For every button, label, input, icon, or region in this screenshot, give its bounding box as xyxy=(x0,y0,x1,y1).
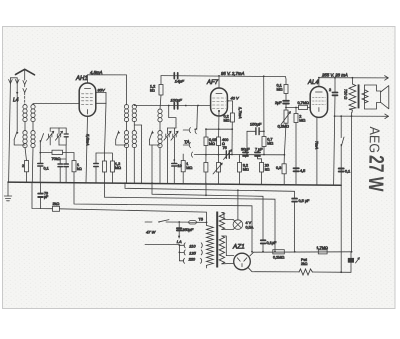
svg-text:75: 75 xyxy=(223,146,227,150)
svg-text:4 V: 4 V xyxy=(246,221,252,225)
line LB xyxy=(74,183,252,252)
svg-text:TA: TA xyxy=(184,140,190,145)
svg-text:MΩ: MΩ xyxy=(115,166,121,170)
capacitor C16 xyxy=(94,164,98,167)
band switch S2 xyxy=(116,131,119,140)
AH1 screen tap 85V xyxy=(96,92,106,103)
dial lamp xyxy=(233,220,243,230)
svg-text:AF7: AF7 xyxy=(206,80,219,86)
resistor 1,2k xyxy=(159,85,163,96)
svg-text:95 V. 2,7mA: 95 V. 2,7mA xyxy=(221,71,244,76)
capacitor C12 xyxy=(38,194,43,197)
trimmer capacitor C2 xyxy=(57,134,60,137)
svg-text:T5: T5 xyxy=(199,218,203,222)
grid resistor 0,7M horizontal xyxy=(299,105,308,109)
svg-text:LA: LA xyxy=(177,239,182,244)
resistor 0,7M xyxy=(262,137,266,147)
svg-text:14μF: 14μF xyxy=(175,78,185,83)
capacitor C3 xyxy=(64,134,68,137)
resistor R2 xyxy=(72,161,76,172)
svg-text:125: 125 xyxy=(189,250,196,255)
switch on speaker line xyxy=(340,116,342,272)
svg-text:250μF: 250μF xyxy=(181,227,194,232)
coil L1a xyxy=(23,105,27,109)
svg-text:MΩ: MΩ xyxy=(209,142,215,146)
resistor 0,3M on pot lead xyxy=(282,164,286,174)
svg-text:7mA: 7mA xyxy=(315,141,320,150)
field coil 2k xyxy=(299,269,312,275)
tone capacitor 2uF on plate xyxy=(334,78,336,93)
svg-text:100μF: 100μF xyxy=(171,98,183,103)
svg-text:710 Ω: 710 Ω xyxy=(344,89,348,99)
svg-text:2kΩ: 2kΩ xyxy=(53,202,60,206)
screen dropper network xyxy=(96,103,112,153)
band switch S3 xyxy=(150,131,153,140)
svg-text:0,5 μF: 0,5 μF xyxy=(299,199,311,203)
svg-text:0,5A: 0,5A xyxy=(246,226,254,230)
speaker return wire xyxy=(335,115,389,117)
trimmer capacitor C8 xyxy=(173,134,176,137)
capacitor 7uF xyxy=(255,152,260,156)
svg-text:0,7MΩ: 0,7MΩ xyxy=(298,101,309,105)
trimmer capacitor C7 xyxy=(166,134,169,137)
trimmer capacitor 75pF xyxy=(226,151,229,159)
antenna plug left xyxy=(9,80,13,84)
brand text AEG 27 W xyxy=(364,126,389,192)
svg-text:4,5mA: 4,5mA xyxy=(90,70,103,75)
coil L6 xyxy=(158,131,162,135)
resistor R5 xyxy=(181,161,185,172)
svg-text:150μF: 150μF xyxy=(250,122,262,127)
power transformer primary xyxy=(207,225,214,265)
band switch S1b xyxy=(40,134,43,143)
svg-text:MΩ: MΩ xyxy=(243,168,249,172)
wire y154 xyxy=(194,154,284,156)
capacitor C11 xyxy=(339,169,344,172)
capacitor 0,5uF xyxy=(292,199,297,202)
coupling capacitor 100uF on IF line xyxy=(174,103,177,109)
resistor 70k horizontal xyxy=(52,150,63,154)
coil L2a xyxy=(23,131,27,135)
resistor R4 xyxy=(111,161,115,172)
speaker xyxy=(364,85,380,109)
svg-text:0,1μF: 0,1μF xyxy=(267,241,277,245)
svg-text:MΩ: MΩ xyxy=(277,88,283,92)
wire coil bottoms xyxy=(25,147,33,182)
svg-text:1,7MΩ: 1,7MΩ xyxy=(317,246,328,250)
wire top tie xyxy=(50,127,66,129)
svg-text:85V: 85V xyxy=(98,87,105,92)
antenna lead center xyxy=(24,69,26,80)
svg-text:27 W: 27 W xyxy=(364,155,389,192)
svg-text:kΩ: kΩ xyxy=(150,89,155,93)
resistor 400 ohm xyxy=(217,137,221,146)
resistor 20k xyxy=(260,163,264,173)
svg-text:0,2MΩ: 0,2MΩ xyxy=(278,125,289,129)
output transformer primary 710ohm xyxy=(351,78,353,113)
resistor 2M xyxy=(294,114,298,123)
capacitor 2uF xyxy=(283,101,289,104)
svg-text:0,1: 0,1 xyxy=(44,167,49,171)
resistor R6 xyxy=(230,113,234,122)
AZ1 bottom xyxy=(248,268,299,272)
tube AF7 xyxy=(211,88,228,116)
rectifier tube AZ1 xyxy=(234,253,251,270)
lamp to rail3 xyxy=(237,190,239,220)
heater winding xyxy=(219,213,224,230)
wire coil bottoms to bus xyxy=(127,125,142,183)
grid cap wire xyxy=(169,106,176,129)
svg-text:47 W: 47 W xyxy=(146,230,157,235)
mains input wires xyxy=(145,221,152,223)
grid arrow xyxy=(195,129,196,134)
tube AL4 xyxy=(310,87,327,118)
svg-text:MΩ: MΩ xyxy=(186,166,192,170)
svg-text:2μF: 2μF xyxy=(275,101,282,105)
antenna plug mid xyxy=(15,80,19,84)
svg-text:4,5: 4,5 xyxy=(300,169,305,173)
antenna terminal bracket xyxy=(10,78,17,83)
arrow tip top right xyxy=(385,76,389,81)
capacitor C9 xyxy=(172,164,177,167)
capacitor C6 xyxy=(64,164,68,167)
svg-text:MΩ: MΩ xyxy=(267,142,273,146)
transformer core xyxy=(358,84,360,108)
resistor 0,1M xyxy=(284,85,288,94)
svg-text:1,7mA: 1,7mA xyxy=(238,107,243,119)
svg-text:MΩ: MΩ xyxy=(299,119,305,123)
line LA with bias resistor 2k xyxy=(32,182,53,208)
svg-text:μF: μF xyxy=(44,195,48,199)
svg-text:kΩ: kΩ xyxy=(77,167,82,171)
filter resistor 1,7M xyxy=(318,250,327,254)
svg-text:AZ1: AZ1 xyxy=(232,244,245,251)
capacitor C5 xyxy=(58,164,62,167)
svg-text:L4: L4 xyxy=(13,98,19,104)
HT winding xyxy=(219,236,224,264)
AH1 cathode wire 5,5mA xyxy=(86,116,88,183)
svg-text:2: 2 xyxy=(22,164,24,168)
resistor R1 xyxy=(25,161,29,172)
coil L4a xyxy=(124,131,128,135)
coil L1b xyxy=(31,105,35,109)
svg-text:255 V. 28 mA: 255 V. 28 mA xyxy=(321,73,348,78)
long vertical from 95V wire xyxy=(263,76,265,136)
dial lamp circuit xyxy=(222,213,233,230)
svg-text:0,1: 0,1 xyxy=(345,170,350,174)
fuse T5 xyxy=(189,221,197,224)
bus tap xyxy=(205,183,207,195)
svg-text:kΩ: kΩ xyxy=(265,168,270,172)
electrolytic capacitor C15 xyxy=(348,258,354,263)
AH1 plate wire 4,5mA xyxy=(88,75,127,105)
svg-text:AEG: AEG xyxy=(366,126,382,153)
capacitor C14 xyxy=(261,240,266,243)
wire coil L1b top to AH1 grid xyxy=(33,104,79,105)
svg-text:0,2MΩ: 0,2MΩ xyxy=(273,256,284,260)
transformer core xyxy=(216,212,218,268)
svg-text:110: 110 xyxy=(189,243,196,248)
svg-text:0,3: 0,3 xyxy=(276,166,281,170)
rail 2 xyxy=(125,183,295,199)
rail 3 xyxy=(105,183,276,252)
wire coil L3b top to IF line xyxy=(134,105,210,106)
antenna xyxy=(16,69,35,75)
coil L3a xyxy=(124,105,128,109)
capacitor 14uF xyxy=(174,73,177,79)
secondary winding xyxy=(362,90,368,103)
resistor R8 xyxy=(204,163,208,173)
band switch S1 xyxy=(14,131,17,140)
volume potentiometer 0,2M xyxy=(284,110,288,123)
svg-text:5,5mA: 5,5mA xyxy=(86,134,91,146)
capacitor C4 xyxy=(38,164,43,167)
AZ1 filament leads xyxy=(222,236,234,256)
coil L5 xyxy=(158,109,162,113)
coil L3b xyxy=(132,105,136,109)
ground bus xyxy=(8,182,341,185)
wire xyxy=(127,121,135,130)
svg-text:70kΩ: 70kΩ xyxy=(52,157,61,161)
coil L4b xyxy=(132,131,136,135)
resistor 3,2M xyxy=(238,163,242,173)
capacitor 30uF xyxy=(243,152,248,156)
capacitor 250uF xyxy=(177,228,181,230)
filter resistor 0,2M xyxy=(273,250,285,254)
potentiometer P1 xyxy=(217,163,221,173)
AZ1 cathode output xyxy=(250,252,352,256)
top output wire xyxy=(319,77,388,79)
resistor R7 xyxy=(204,137,208,146)
ground symbol xyxy=(7,182,9,196)
svg-text:AH1: AH1 xyxy=(75,76,88,82)
transformer bottom lead xyxy=(351,113,353,252)
tube AH1 xyxy=(79,83,96,116)
svg-text:AL4: AL4 xyxy=(307,80,319,86)
AL4 plate wire 255V xyxy=(318,78,320,87)
svg-text:220: 220 xyxy=(188,256,196,261)
wire xyxy=(25,121,33,130)
svg-text:40 V: 40 V xyxy=(231,96,240,101)
rail 4 xyxy=(152,183,263,240)
AL4 cathode wire 7mA xyxy=(316,118,318,185)
capacitor C10 xyxy=(294,168,299,171)
trimmer capacitor C1 xyxy=(49,134,52,137)
plate supply wire 95V xyxy=(161,76,286,77)
svg-text:7 μF: 7 μF xyxy=(255,148,263,152)
AF7 cathode tie xyxy=(218,111,220,130)
resistor R3 xyxy=(103,161,107,172)
svg-text:2: 2 xyxy=(329,88,331,92)
coil L2b xyxy=(31,131,35,135)
svg-text:2kΩ: 2kΩ xyxy=(301,262,308,266)
plug arrow xyxy=(178,236,180,239)
wire antenna to coil xyxy=(24,103,26,106)
capacitor 150uF xyxy=(256,128,259,135)
AF7 screen tap 40V xyxy=(227,101,232,113)
mains switch xyxy=(158,221,160,223)
svg-text:MΩ: MΩ xyxy=(224,119,230,123)
